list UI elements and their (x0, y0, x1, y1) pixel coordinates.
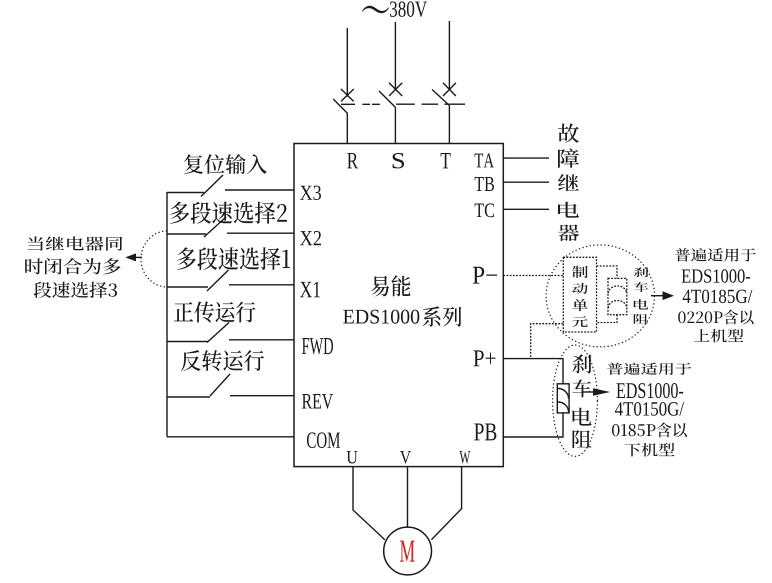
note2 4T0150G/ (615, 402, 684, 416)
note2 普遍适用于 (607, 363, 691, 375)
wire TC (503, 208, 549, 210)
annotation arc (141, 231, 167, 287)
brake resistor RB1 (608, 278, 627, 314)
wire RB1 bottom to unit (597, 315, 618, 323)
brake resistor RB2 (557, 384, 569, 413)
wire COM (167, 436, 294, 438)
pin label FWD (302, 338, 333, 354)
label 反转运行 (181, 350, 264, 371)
wire W to motor (431, 467, 461, 540)
pin label T (441, 153, 451, 168)
wire phase R drop (346, 28, 348, 97)
breaker QF pole T cross (443, 83, 456, 96)
breaker QF pole S cross (389, 83, 402, 96)
label 多段速选择2 (170, 202, 287, 224)
arrow to note 1 (651, 291, 674, 300)
pin label COM (307, 432, 340, 448)
label 刹车电阻 unit (634, 267, 648, 277)
wire unit to P+ node (531, 324, 564, 359)
pin label REV (302, 394, 333, 409)
power label 380V (390, 1, 427, 17)
note line 段速选择3 (34, 282, 117, 298)
switch S4 forward (FWD) (167, 323, 294, 343)
wire P- dotted (503, 275, 563, 277)
breaker QF pole R contact (341, 103, 355, 105)
wire RB2 to PB (503, 413, 563, 437)
wire P+ (503, 359, 563, 384)
pin label X2 (300, 231, 321, 245)
label 复位输入 (184, 154, 267, 174)
pin label X3 (300, 186, 321, 200)
wire phase T drop (448, 21, 450, 89)
note2 下机型 (625, 443, 675, 457)
switch S2 multispeed2 (X2) (167, 217, 294, 237)
pin label U (347, 451, 358, 463)
breaker QF pole S blade (379, 91, 395, 107)
arrow to note 2 (583, 388, 610, 396)
note2 0185P含以 (612, 422, 687, 437)
pin label V (400, 451, 411, 464)
label 刹车电阻 ext (572, 354, 591, 373)
device name 系列 (423, 306, 462, 326)
switch S1 reset (X3) (167, 175, 294, 197)
pin label TA (475, 154, 494, 168)
device name EDS1000 (343, 310, 419, 324)
optional zone ellipse 1 (546, 245, 654, 347)
inverter U1 outline (294, 144, 503, 467)
pin label X1 (300, 282, 320, 298)
pin label PB (474, 423, 496, 440)
wire TB (503, 181, 549, 183)
wire V to motor (407, 467, 409, 527)
label 制动单元 (572, 266, 587, 278)
pin label W (459, 451, 470, 464)
label 故障继电器 (558, 124, 579, 143)
note1 4T0185G/ (683, 290, 753, 303)
breaker QF pole T contact (444, 103, 465, 105)
note2 EDS1000- (617, 383, 684, 398)
wire U to motor (353, 467, 385, 540)
control bus wire (166, 192, 168, 437)
switch S5 reverse (REV) (167, 374, 294, 397)
switch S3 multispeed1 (X1) (167, 270, 294, 291)
wire S to inverter (394, 107, 396, 143)
breaker QF pole S contact (396, 103, 415, 105)
note1 普遍适用于 (675, 248, 756, 261)
note1 0220P含以 (678, 310, 753, 325)
braking unit box (563, 257, 596, 332)
pin label P+ (473, 350, 495, 366)
breaker QF pole R cross (341, 89, 354, 101)
label 多段速选择1 (177, 247, 290, 270)
annotation arrow (125, 253, 142, 261)
pin label P- (473, 267, 497, 284)
motor M1 circle (384, 527, 432, 575)
breaker QF pole T blade (432, 90, 449, 106)
pin label R (347, 153, 358, 168)
optional zone ellipse 2 (553, 345, 598, 456)
pin label TB (475, 177, 494, 191)
wire T to inverter (448, 106, 450, 144)
wire TA (503, 157, 549, 159)
note1 上机型 (694, 329, 743, 342)
pin label S (393, 153, 404, 168)
breaker QF pole R blade (333, 99, 347, 114)
device name 易能 (371, 275, 410, 296)
power label ~ sign (362, 6, 389, 13)
wire unit to RB1 top (597, 266, 618, 278)
motor label M (400, 541, 415, 562)
note1 EDS1000- (682, 269, 751, 282)
note line 时闭合为多 (25, 258, 120, 274)
wire phase S drop (394, 22, 396, 89)
wire R to inverter (346, 114, 348, 144)
breaker QF gang link (362, 103, 438, 105)
label 正传运行 (174, 301, 255, 322)
note line 当继电器同 (27, 236, 122, 251)
pin label TC (475, 203, 494, 217)
